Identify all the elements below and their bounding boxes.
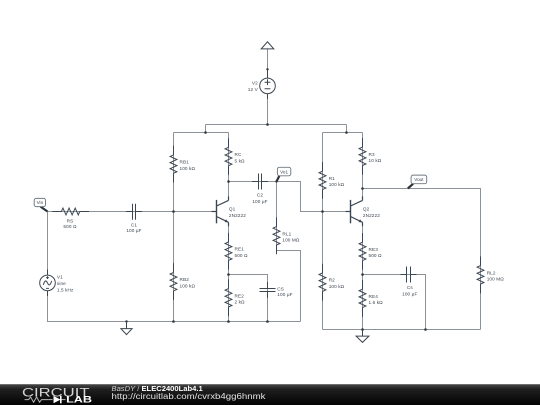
wire: Vin node down to V1 top (47, 212, 49, 276)
wire: Q1 emitter through RE1/RE2 to ground rail (228, 222, 230, 321)
wire: V2 column (267, 49, 269, 125)
label RS value (63, 218, 77, 229)
svg-text:Q2: Q2 (363, 206, 370, 211)
node dot: Q2 collector / R3 junction (361, 187, 364, 190)
wire: Q1 collector node through C2 over to Q2 base (229, 182, 351, 212)
resistor RE3 (359, 233, 366, 270)
svg-text:R2: R2 (329, 278, 335, 283)
svg-text:http://circuitlab.com/cvrxb4gg: http://circuitlab.com/cvrxb4gg6hnmk (112, 392, 267, 401)
node dot: V2 positive terminal wire (266, 68, 268, 70)
svg-text:Vout: Vout (414, 177, 424, 182)
resistor RE2 (225, 279, 232, 316)
svg-text:C2: C2 (257, 192, 263, 197)
svg-text:2N2222: 2N2222 (229, 213, 246, 218)
svg-text:2N2222: 2N2222 (363, 213, 380, 218)
label C1 value (126, 222, 141, 233)
footer bar (0, 384, 540, 405)
node dot: ground 1 tee (125, 320, 127, 322)
label RB2 value (180, 277, 196, 288)
svg-text:RE1: RE1 (235, 247, 245, 252)
resistor RE1 (225, 233, 232, 270)
svg-text:RB2: RB2 (180, 277, 190, 282)
svg-text:RL1: RL1 (282, 231, 291, 236)
svg-text:500 Ω: 500 Ω (369, 253, 383, 258)
svg-text:100 µF: 100 µF (126, 228, 141, 233)
svg-text:10 kΩ: 10 kΩ (369, 158, 382, 163)
label CS value (277, 286, 292, 297)
resistor R3 (359, 138, 366, 175)
svg-text:12 V: 12 V (248, 87, 259, 92)
wire: V+ main rail (206, 124, 347, 126)
svg-text:RC: RC (235, 152, 242, 157)
wire: R3 column down to Q2 collector (362, 133, 364, 201)
node dot: stage-1 sub-rail tee (204, 131, 207, 134)
svg-text:Vin: Vin (37, 200, 44, 205)
wire: Vout node over and down through RL2 (363, 189, 481, 330)
node dot: Cs on stage-2 ground rail (424, 328, 427, 331)
resistor RC (225, 138, 232, 175)
label R1 value (329, 176, 345, 187)
svg-text:1.5 kHz: 1.5 kHz (57, 287, 74, 292)
capacitor C1 (126, 204, 142, 220)
svg-text:Cs: Cs (407, 285, 413, 290)
footer logo CIRCUITLAB (22, 385, 93, 404)
svg-text:2 kΩ: 2 kΩ (235, 300, 246, 305)
node dot: Vo1 anchor on C2 output node (275, 180, 277, 182)
voltage source V2 (260, 69, 276, 99)
label R2 value (329, 278, 345, 289)
svg-text:100 kΩ: 100 kΩ (329, 182, 345, 187)
resistor RB1 (170, 146, 177, 183)
svg-text:100 kΩ: 100 kΩ (180, 284, 196, 289)
svg-text:Q1: Q1 (229, 206, 236, 211)
label RL2 value (487, 270, 505, 281)
wire: V1 bottom to stage-1 ground rail (48, 291, 301, 322)
ground: stage 2 (356, 330, 369, 343)
svg-text:5 kΩ: 5 kΩ (235, 158, 246, 163)
node dot: stage-2 sub-rail tee (345, 131, 348, 134)
svg-text:RS: RS (67, 218, 74, 223)
ground: stage 1 (121, 322, 132, 335)
node dot: Q1 collector / C2 junction (227, 180, 230, 183)
svg-text:1.6 kΩ: 1.6 kΩ (369, 300, 384, 305)
label RE3 value (369, 247, 383, 258)
wire: RC column down to Q1 collector (228, 133, 230, 201)
resistor RB2 (170, 263, 177, 300)
node dot: RE1 bottom tee (227, 273, 230, 276)
svg-text:R1: R1 (329, 176, 335, 181)
svg-text:RB1: RB1 (180, 160, 190, 165)
svg-text:Vo1: Vo1 (280, 169, 288, 174)
svg-text:CS: CS (277, 286, 284, 291)
svg-text:100 kΩ: 100 kΩ (329, 284, 345, 289)
capacitor CS (260, 282, 276, 298)
resistor R2 (319, 264, 326, 301)
label V1 value (57, 274, 74, 292)
label RB1 value (180, 160, 196, 171)
svg-text:V1: V1 (57, 274, 63, 279)
wire: Q2 emitter through RE3/RE4 to ground rail (362, 222, 364, 329)
wire: RL1 bottom jog down to stage-1 ground rail (277, 251, 301, 322)
label RE1 value (235, 247, 249, 258)
wire: RE1 bottom tee to CS bypass branch (229, 275, 268, 322)
svg-text:100 µF: 100 µF (402, 292, 417, 297)
label RE2 value (235, 293, 246, 304)
power flag V+ above V2 (261, 42, 274, 49)
footer title text (112, 384, 267, 401)
svg-text:sine: sine (57, 281, 66, 286)
svg-text:RE4: RE4 (369, 294, 379, 299)
svg-text:100 kΩ: 100 kΩ (180, 166, 196, 171)
node dot: RE4 / ground 2 tee (361, 328, 364, 331)
resistor RL2 (477, 256, 484, 293)
net flag Vout (408, 175, 427, 188)
capacitor C2 (252, 174, 268, 190)
svg-text:RE2: RE2 (235, 293, 245, 298)
label RE4 value (369, 294, 384, 305)
resistor RS (52, 208, 89, 215)
svg-text:100 µF: 100 µF (252, 199, 267, 204)
label Cs value (402, 285, 417, 297)
transistor Q2 (346, 196, 363, 226)
node dot: CS on stage-1 ground rail (266, 320, 269, 323)
label Q2 type (363, 206, 380, 218)
voltage source V1 (sine) (40, 270, 56, 297)
node dot: V2 on main rail (266, 123, 269, 126)
svg-text:LAB: LAB (66, 395, 93, 405)
svg-text:RE3: RE3 (369, 247, 379, 252)
node dot: RB1/RB2/Q1-base junction (172, 210, 175, 213)
label R3 value (369, 152, 382, 163)
svg-text:500 Ω: 500 Ω (63, 224, 77, 229)
svg-text:V2: V2 (252, 81, 258, 86)
node dot: R1/R2/Q2-base junction (321, 210, 324, 213)
wire: R1/R2 bias column (322, 133, 324, 330)
wire: RE3 bottom tee through Cs bypass branch (363, 275, 426, 330)
svg-text:RL2: RL2 (487, 270, 496, 275)
capacitor Cs (401, 267, 417, 283)
wire: input node to Q1 base (through RS and C1) (48, 211, 217, 213)
label RC value (235, 152, 246, 163)
transistor Q1 (212, 196, 229, 226)
label C2 value (252, 192, 267, 204)
net flag Vo1 (277, 167, 291, 181)
net flag Vin (34, 198, 47, 211)
label RL1 value (282, 231, 300, 242)
node dot: RE2 on stage-1 ground rail (227, 320, 230, 323)
wire: stage-2 supply sub-rail (323, 125, 363, 133)
resistor RE4 (359, 280, 366, 317)
svg-text:C1: C1 (131, 222, 137, 227)
svg-text:100 µF: 100 µF (277, 292, 292, 297)
label Q1 type (229, 206, 246, 218)
svg-text:100 MΩ: 100 MΩ (282, 238, 300, 243)
label V2 value (248, 81, 259, 92)
svg-text:500 Ω: 500 Ω (235, 253, 249, 258)
resistor RL1 (273, 217, 280, 254)
wire: stage-2 ground rail (323, 329, 481, 331)
svg-text:R3: R3 (369, 152, 375, 157)
resistor R1 (319, 162, 326, 199)
wire: stage-1 supply sub-rail (174, 125, 229, 133)
wire: Vo1 node down through RL1 (276, 182, 278, 251)
node dot: RE3 bottom tee (361, 273, 364, 276)
node dot: RB2 on stage-1 ground rail (172, 320, 175, 323)
svg-text:100 MΩ: 100 MΩ (487, 277, 505, 282)
wire: RB1/RB2 bias column (173, 133, 175, 322)
